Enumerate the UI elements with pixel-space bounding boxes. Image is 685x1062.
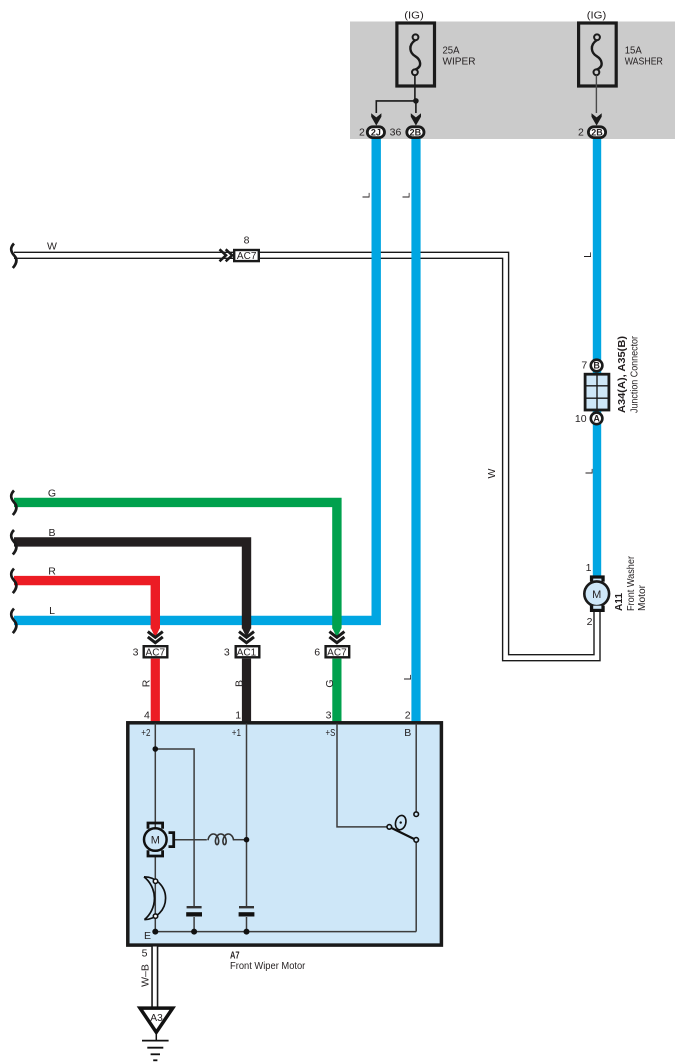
svg-text:AC7: AC7	[327, 648, 347, 659]
svg-text:B: B	[593, 361, 600, 371]
svg-text:AC7: AC7	[146, 648, 166, 659]
svg-text:L: L	[361, 192, 373, 198]
svg-text:Front Washer: Front Washer	[626, 555, 637, 611]
svg-text:B: B	[48, 527, 55, 539]
svg-text:WASHER: WASHER	[625, 55, 664, 67]
svg-text:E: E	[144, 930, 151, 942]
svg-text:L: L	[584, 468, 596, 474]
svg-text:2B: 2B	[591, 127, 603, 137]
svg-text:36: 36	[390, 127, 402, 139]
svg-text:R: R	[140, 679, 152, 687]
svg-text:2: 2	[405, 710, 411, 722]
svg-text:A3: A3	[150, 1013, 163, 1024]
svg-text:L: L	[402, 674, 414, 680]
svg-text:A11: A11	[614, 593, 625, 611]
svg-text:3: 3	[133, 647, 139, 659]
svg-text:+1: +1	[232, 727, 241, 739]
svg-text:R: R	[48, 566, 56, 578]
svg-text:2: 2	[359, 127, 365, 139]
svg-text:L: L	[582, 252, 594, 258]
svg-text:AC1: AC1	[237, 648, 257, 659]
svg-text:Junction Connector: Junction Connector	[630, 335, 641, 413]
svg-text:Motor: Motor	[637, 584, 648, 611]
svg-text:1: 1	[235, 710, 241, 722]
svg-text:5: 5	[142, 948, 148, 960]
svg-text:2: 2	[578, 127, 584, 139]
svg-text:W: W	[47, 241, 57, 253]
svg-text:(IG): (IG)	[587, 10, 607, 22]
svg-text:8: 8	[244, 235, 250, 247]
svg-text:10: 10	[575, 413, 587, 425]
svg-text:A34(A), A35(B): A34(A), A35(B)	[617, 336, 628, 413]
svg-text:2: 2	[587, 616, 593, 628]
svg-text:4: 4	[144, 710, 150, 722]
svg-text:M: M	[592, 589, 601, 601]
svg-text:L: L	[49, 605, 55, 617]
svg-text:Front Wiper Motor: Front Wiper Motor	[230, 960, 306, 972]
svg-text:3: 3	[224, 647, 230, 659]
svg-text:2B: 2B	[410, 127, 422, 137]
svg-text:B: B	[404, 727, 411, 739]
svg-text:6: 6	[314, 647, 320, 659]
svg-text:G: G	[324, 679, 336, 687]
svg-text:B: B	[234, 680, 246, 687]
svg-text:+S: +S	[326, 727, 336, 739]
svg-text:WIPER: WIPER	[443, 55, 476, 67]
svg-text:M: M	[151, 835, 160, 847]
svg-text:7: 7	[581, 360, 587, 372]
svg-text:G: G	[48, 488, 56, 500]
svg-text:3: 3	[326, 710, 332, 722]
svg-text:L: L	[400, 192, 412, 198]
svg-text:(IG): (IG)	[404, 10, 424, 22]
svg-text:AC7: AC7	[237, 251, 257, 262]
svg-text:W: W	[486, 468, 498, 478]
svg-text:2J: 2J	[371, 127, 381, 137]
svg-text:+2: +2	[141, 727, 150, 739]
svg-text:A: A	[593, 414, 600, 424]
svg-text:1: 1	[586, 562, 592, 574]
svg-text:W–B: W–B	[139, 964, 151, 987]
